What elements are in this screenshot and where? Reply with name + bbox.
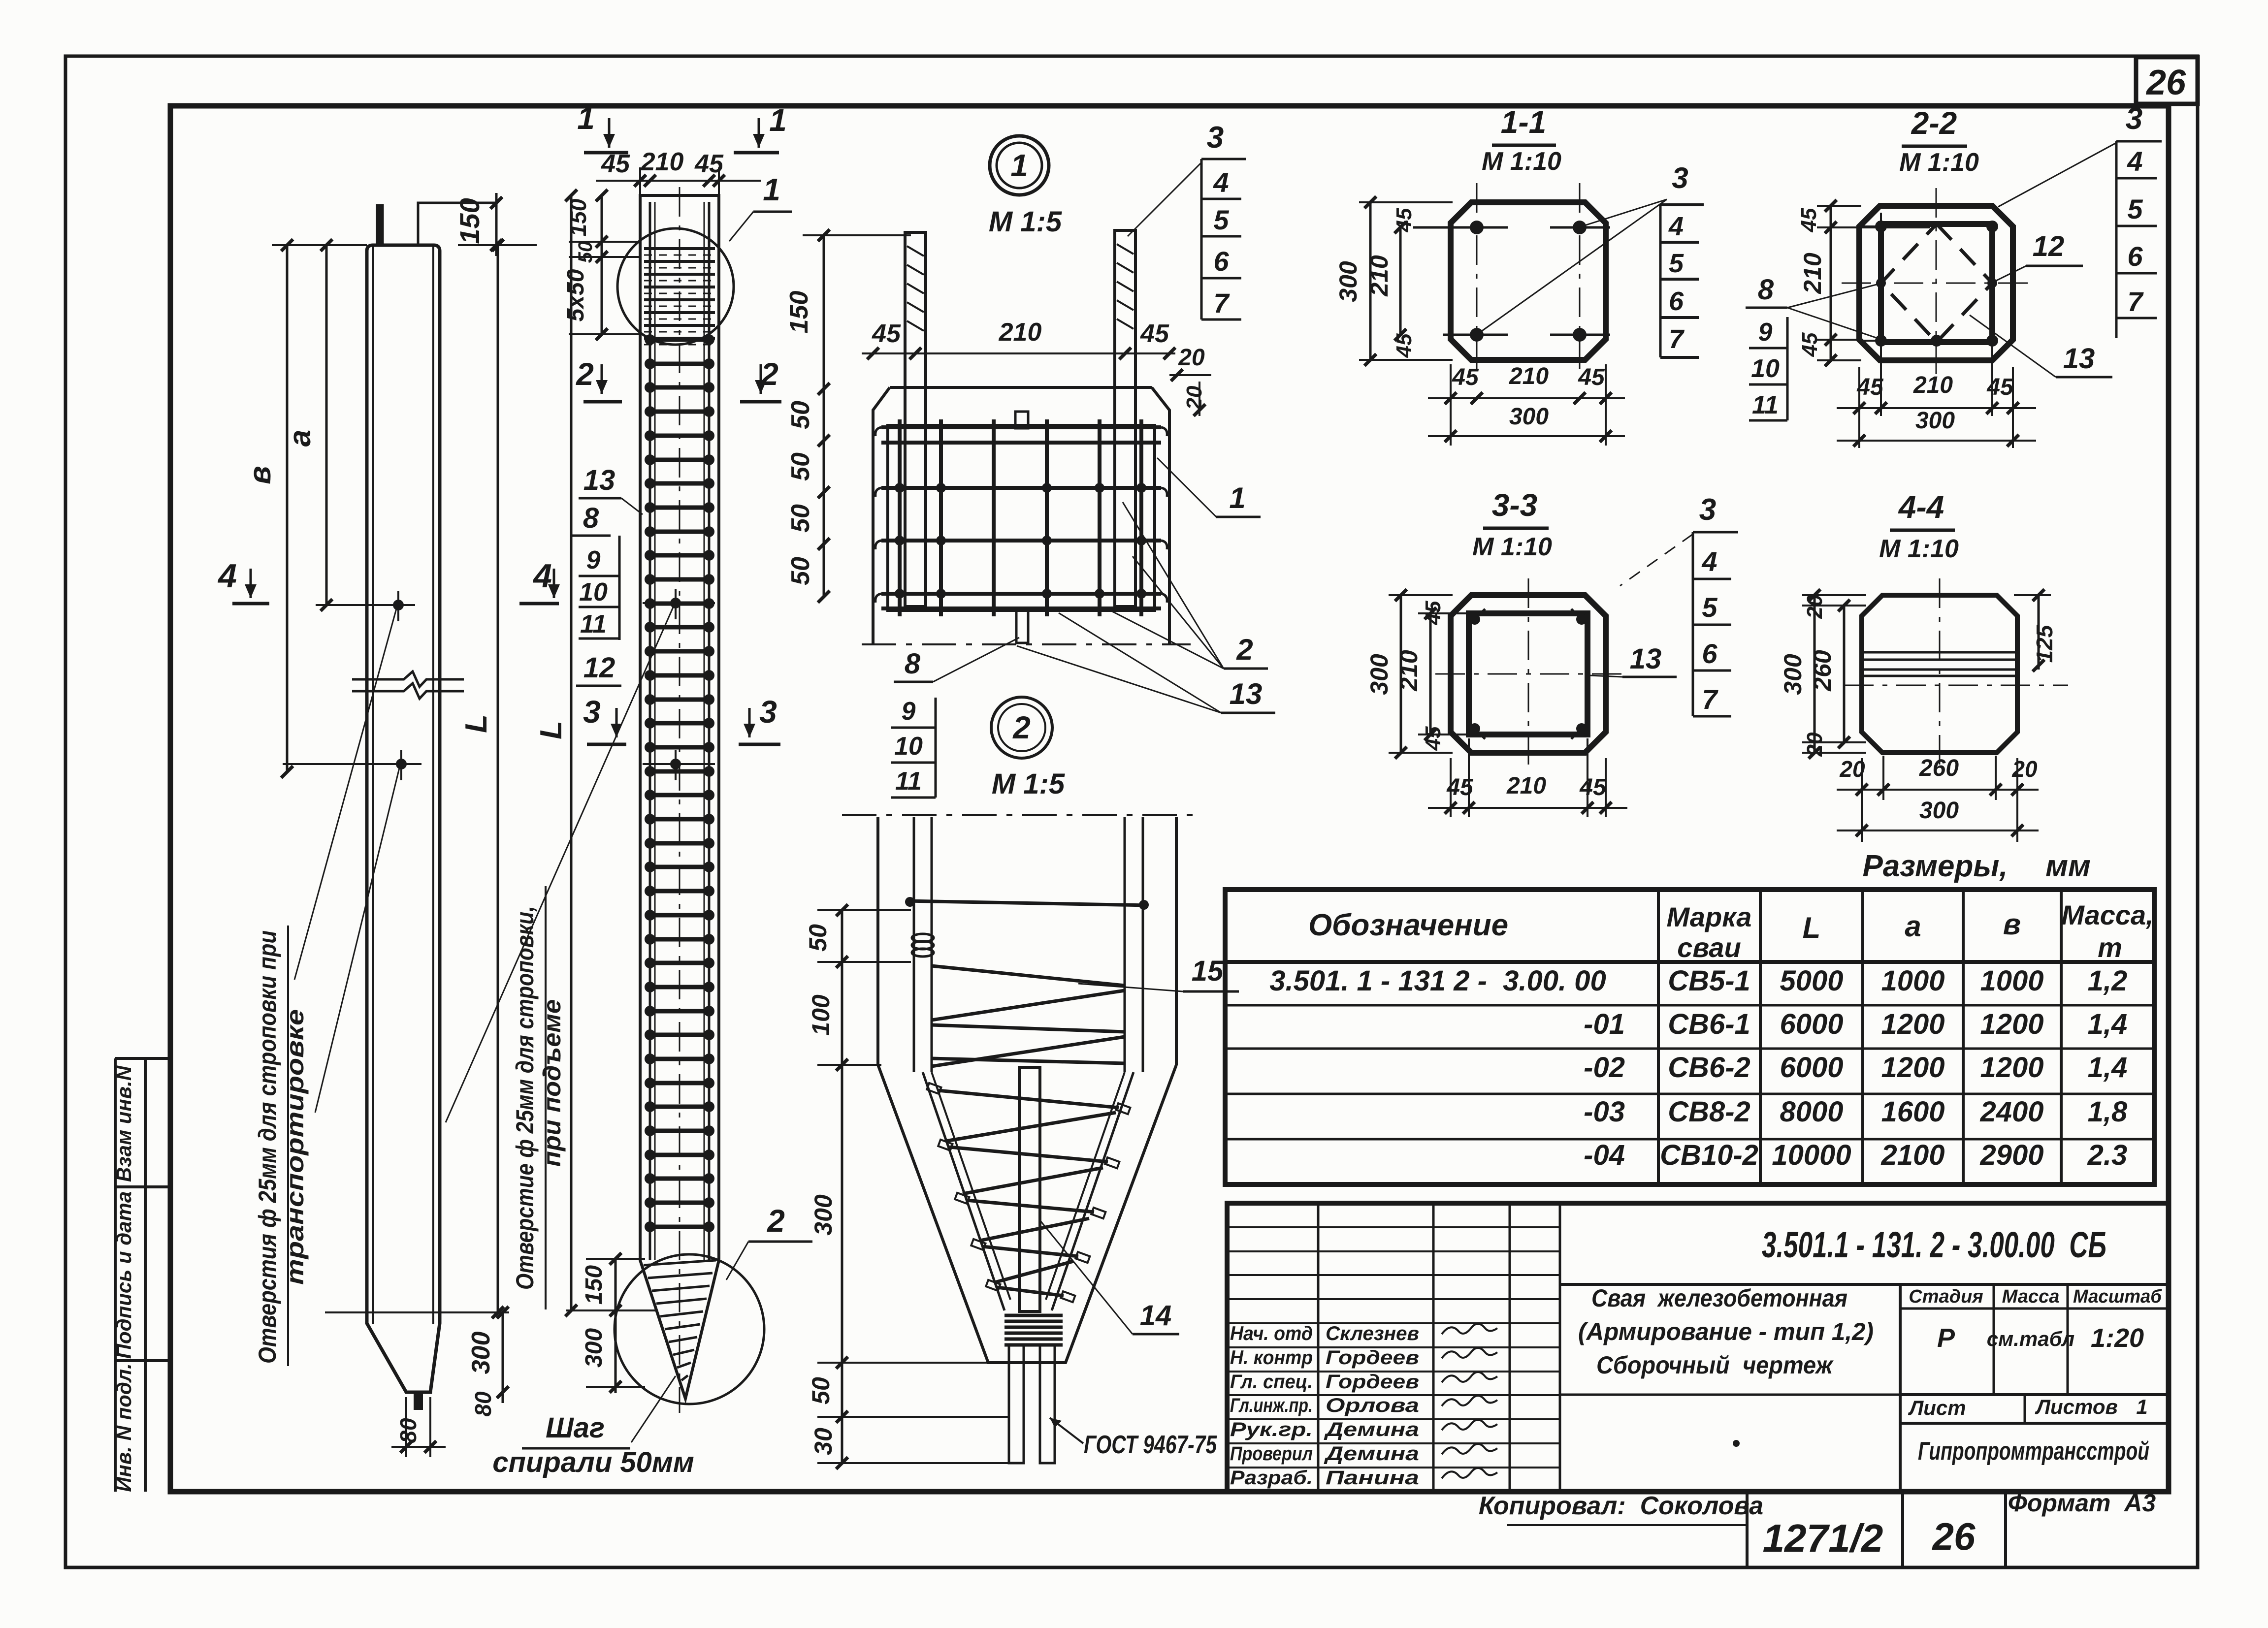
svg-text:Шаг: Шаг [546, 1412, 605, 1444]
svg-text:m: m [2098, 932, 2122, 963]
svg-text:13: 13 [2063, 343, 2095, 375]
svg-text:L: L [1803, 911, 1821, 944]
svg-text:50: 50 [786, 557, 815, 585]
svg-text:300: 300 [1915, 408, 1955, 434]
svg-text:Инв. N подл.: Инв. N подл. [112, 1363, 135, 1492]
svg-text:2100: 2100 [1880, 1139, 1944, 1171]
svg-text:210: 210 [1506, 773, 1546, 799]
svg-text:Стадия: Стадия [1909, 1286, 1983, 1307]
svg-text:45: 45 [1392, 208, 1416, 232]
svg-text:45: 45 [1392, 333, 1416, 358]
svg-text:150: 150 [581, 1265, 607, 1305]
svg-text:1: 1 [2136, 1395, 2147, 1418]
svg-text:а: а [1905, 910, 1921, 943]
svg-text:4-4: 4-4 [1898, 489, 1944, 525]
svg-text:3.501.1 - 131. 2 - 3.00.00 СБ: 3.501.1 - 131. 2 - 3.00.00 СБ [1762, 1224, 2106, 1265]
svg-text:11: 11 [1752, 391, 1779, 419]
svg-text:(Армирование - тип 1,2): (Армирование - тип 1,2) [1578, 1318, 1874, 1345]
svg-text:300: 300 [467, 1332, 495, 1374]
svg-text:45: 45 [1986, 374, 2014, 400]
svg-text:М 1:10: М 1:10 [1899, 148, 1979, 177]
svg-text:300: 300 [1779, 654, 1807, 695]
svg-text:50: 50 [786, 504, 815, 533]
svg-text:в: в [2003, 908, 2021, 941]
svg-text:Взам инв.N: Взам инв.N [112, 1065, 135, 1182]
svg-text:210: 210 [1913, 372, 1953, 398]
svg-text:Демина: Демина [1324, 1419, 1419, 1440]
svg-text:150: 150 [785, 291, 813, 334]
svg-text:300: 300 [581, 1328, 607, 1368]
svg-text:7: 7 [1213, 287, 1230, 319]
svg-text:9: 9 [902, 697, 916, 726]
svg-text:1-1: 1-1 [1501, 104, 1547, 140]
svg-text:М 1:10: М 1:10 [1472, 533, 1552, 561]
svg-text:7: 7 [1669, 324, 1685, 354]
svg-text:1200: 1200 [1980, 1008, 2043, 1040]
svg-text:Формат А3: Формат А3 [2008, 1489, 2156, 1517]
svg-text:125: 125 [2032, 624, 2057, 663]
svg-text:26: 26 [1932, 1515, 1976, 1558]
svg-text:2.3: 2.3 [2087, 1139, 2128, 1171]
svg-text:50: 50 [804, 924, 832, 952]
svg-text:11: 11 [895, 767, 922, 796]
svg-text:а: а [283, 430, 317, 447]
svg-text:10: 10 [1751, 354, 1780, 383]
svg-text:Отверстие ф 25мм для строповки: Отверстие ф 25мм для строповки, [511, 906, 539, 1290]
svg-text:80: 80 [395, 1418, 421, 1443]
svg-text:45: 45 [1421, 726, 1445, 751]
svg-text:20: 20 [1178, 345, 1205, 371]
svg-text:260: 260 [1809, 650, 1836, 692]
svg-text:Обозначение: Обозначение [1308, 908, 1508, 942]
svg-text:-01: -01 [1584, 1008, 1625, 1040]
svg-text:3.501. 1 - 131 2 - 3.00. 00: 3.501. 1 - 131 2 - 3.00. 00 [1269, 965, 1606, 997]
svg-text:-03: -03 [1584, 1096, 1625, 1128]
svg-text:спирали 50мм: спирали 50мм [492, 1446, 694, 1478]
svg-text:6: 6 [2127, 241, 2143, 272]
svg-text:210: 210 [641, 148, 684, 176]
svg-text:1200: 1200 [1980, 1052, 2043, 1084]
svg-text:Листов: Листов [2035, 1395, 2118, 1418]
svg-text:45: 45 [1578, 364, 1605, 390]
svg-text:Отверстия ф 25мм для строповки: Отверстия ф 25мм для строповки при [254, 930, 281, 1364]
svg-text:Склезнев: Склезнев [1326, 1323, 1419, 1344]
svg-text:6: 6 [1702, 638, 1717, 669]
svg-text:Проверил: Проверил [1230, 1443, 1313, 1465]
svg-text:СВ8-2: СВ8-2 [1668, 1096, 1750, 1128]
svg-text:Нач. отд: Нач. отд [1230, 1323, 1313, 1344]
svg-text:2400: 2400 [1979, 1096, 2043, 1128]
svg-text:сваи: сваи [1677, 932, 1741, 963]
svg-text:2-2: 2-2 [1911, 105, 1957, 141]
svg-text:1000: 1000 [1980, 965, 2043, 997]
svg-text:СВ6-2: СВ6-2 [1668, 1052, 1750, 1084]
svg-text:6: 6 [1213, 246, 1229, 277]
svg-text:1000: 1000 [1881, 965, 1944, 997]
svg-text:Гордеев: Гордеев [1326, 1371, 1419, 1393]
svg-text:3: 3 [1207, 121, 1224, 155]
svg-text:150: 150 [454, 198, 485, 244]
svg-text:Подпись и дата: Подпись и дата [112, 1191, 135, 1359]
svg-text:Размеры,: Размеры, [1862, 849, 2008, 883]
svg-text:300: 300 [1919, 798, 1959, 824]
svg-text:3: 3 [759, 694, 777, 730]
svg-text:8000: 8000 [1780, 1096, 1843, 1128]
svg-text:5: 5 [1213, 204, 1229, 235]
svg-text:45: 45 [1797, 208, 1821, 232]
svg-text:1,8: 1,8 [2088, 1096, 2128, 1128]
svg-text:М 1:10: М 1:10 [1879, 535, 1959, 563]
svg-text:300: 300 [1509, 404, 1549, 430]
svg-text:3: 3 [583, 694, 601, 730]
svg-text:45: 45 [694, 150, 724, 178]
svg-text:50: 50 [575, 241, 596, 263]
svg-text:Рук.гр.: Рук.гр. [1230, 1419, 1313, 1440]
svg-text:5: 5 [1702, 592, 1717, 623]
svg-text:Н. контр: Н. контр [1230, 1347, 1313, 1369]
svg-text:210: 210 [999, 318, 1042, 347]
svg-text:-02: -02 [1584, 1052, 1625, 1084]
svg-text:Панина: Панина [1326, 1467, 1419, 1489]
svg-text:210: 210 [1799, 253, 1826, 294]
svg-text:300: 300 [1334, 261, 1362, 302]
svg-text:Сборочный чертеж: Сборочный чертеж [1596, 1351, 1834, 1379]
svg-text:1200: 1200 [1881, 1052, 1944, 1084]
svg-text:13: 13 [1230, 677, 1263, 710]
svg-text:М 1:5: М 1:5 [989, 206, 1062, 238]
svg-text:1,2: 1,2 [2088, 965, 2128, 997]
svg-text:1: 1 [769, 102, 787, 138]
svg-text:4: 4 [532, 557, 552, 595]
svg-text:1271/2: 1271/2 [1763, 1516, 1883, 1560]
svg-text:45: 45 [1452, 364, 1479, 390]
svg-text:5000: 5000 [1780, 965, 1843, 997]
svg-text:М 1:10: М 1:10 [1482, 147, 1561, 176]
svg-text:Свая железобетонная: Свая железобетонная [1591, 1284, 1847, 1312]
svg-text:80: 80 [470, 1391, 496, 1417]
svg-text:8: 8 [905, 648, 921, 680]
svg-text:300: 300 [810, 1194, 837, 1236]
svg-text:1: 1 [1229, 481, 1245, 514]
svg-text:6000: 6000 [1780, 1052, 1843, 1084]
svg-text:45: 45 [1446, 774, 1474, 800]
svg-text:11: 11 [580, 610, 607, 638]
svg-text:Разраб.: Разраб. [1230, 1467, 1313, 1489]
svg-text:Гл.инж.пр.: Гл.инж.пр. [1230, 1395, 1313, 1416]
svg-text:Лист: Лист [1908, 1396, 1966, 1419]
svg-text:50: 50 [786, 452, 815, 481]
svg-text:20: 20 [1803, 594, 1827, 619]
svg-text:Гипропромтрансстрой: Гипропромтрансстрой [1918, 1437, 2149, 1466]
svg-text:1600: 1600 [1881, 1096, 1944, 1128]
svg-text:5x50: 5x50 [563, 269, 589, 321]
svg-text:14: 14 [1140, 1300, 1172, 1332]
svg-text:2: 2 [1236, 633, 1253, 666]
svg-text:50: 50 [786, 401, 815, 429]
svg-text:210: 210 [1365, 255, 1393, 297]
svg-text:1: 1 [577, 100, 595, 136]
svg-text:300: 300 [1365, 654, 1393, 695]
svg-text:4: 4 [2127, 146, 2142, 177]
svg-text:СВ5-1: СВ5-1 [1668, 965, 1750, 997]
svg-text:30: 30 [810, 1428, 837, 1455]
svg-text:5: 5 [2127, 193, 2143, 224]
svg-text:ГОСТ 9467-75: ГОСТ 9467-75 [1084, 1431, 1217, 1459]
svg-text:10: 10 [579, 578, 608, 607]
svg-text:2900: 2900 [1979, 1139, 2043, 1171]
svg-text:20: 20 [1839, 756, 1865, 782]
svg-text:L: L [534, 721, 568, 739]
svg-text:50: 50 [807, 1377, 835, 1405]
svg-text:3-3: 3-3 [1492, 487, 1538, 523]
svg-text:Орлова: Орлова [1326, 1395, 1419, 1416]
svg-text:2: 2 [576, 356, 594, 392]
svg-text:Гл. спец.: Гл. спец. [1230, 1371, 1313, 1393]
svg-text:Масштаб: Масштаб [2073, 1286, 2162, 1307]
svg-text:2: 2 [1012, 710, 1031, 745]
svg-text:12: 12 [2033, 230, 2065, 262]
svg-text:4: 4 [1668, 212, 1684, 241]
svg-text:26: 26 [2145, 63, 2186, 102]
svg-text:СВ6-1: СВ6-1 [1668, 1008, 1750, 1040]
svg-text:СВ10-2: СВ10-2 [1660, 1139, 1758, 1171]
svg-text:150: 150 [565, 198, 591, 236]
svg-text:1:20: 1:20 [2091, 1323, 2144, 1353]
svg-text:210: 210 [1395, 650, 1423, 692]
svg-text:9: 9 [586, 546, 601, 575]
svg-text:7: 7 [2127, 286, 2144, 317]
svg-text:6000: 6000 [1780, 1008, 1843, 1040]
svg-text:9: 9 [1758, 318, 1773, 347]
svg-text:10000: 10000 [1772, 1139, 1851, 1171]
svg-text:4: 4 [1701, 546, 1717, 577]
svg-text:Р: Р [1937, 1323, 1955, 1353]
svg-text:5: 5 [1669, 249, 1684, 278]
svg-text:45: 45 [1856, 374, 1884, 400]
svg-text:1: 1 [1010, 148, 1028, 183]
svg-text:Марка: Марка [1667, 901, 1752, 932]
svg-text:транспортировке: транспортировке [281, 1009, 309, 1285]
svg-text:Масса: Масса [2002, 1286, 2060, 1307]
svg-text:45: 45 [872, 319, 901, 348]
svg-text:4: 4 [217, 557, 237, 595]
svg-text:Масса,: Масса, [2061, 899, 2153, 930]
svg-text:45: 45 [1140, 319, 1169, 348]
svg-text:1200: 1200 [1881, 1008, 1944, 1040]
svg-text:в: в [243, 466, 277, 484]
svg-text:3: 3 [1699, 493, 1716, 527]
svg-text:при подъеме: при подъеме [538, 999, 566, 1167]
svg-text:6: 6 [1669, 287, 1684, 316]
svg-text:260: 260 [1919, 755, 1959, 781]
svg-text:3: 3 [1672, 161, 1688, 194]
svg-text:2: 2 [767, 1203, 785, 1239]
svg-text:1,4: 1,4 [2088, 1008, 2128, 1040]
svg-text:М 1:5: М 1:5 [992, 768, 1065, 800]
svg-text:8: 8 [1758, 274, 1774, 306]
svg-text:Демина: Демина [1324, 1443, 1419, 1465]
svg-text:13: 13 [1630, 643, 1662, 675]
svg-text:1,4: 1,4 [2088, 1052, 2128, 1084]
svg-text:100: 100 [807, 994, 835, 1036]
svg-text:45: 45 [1798, 332, 1822, 357]
svg-text:L: L [459, 714, 493, 733]
svg-text:210: 210 [1509, 363, 1549, 389]
svg-text:15: 15 [1192, 955, 1224, 987]
svg-text:4: 4 [1213, 167, 1229, 198]
svg-text:Копировал: Соколова: Копировал: Соколова [1479, 1492, 1763, 1520]
svg-text:Гордеев: Гордеев [1326, 1347, 1419, 1369]
svg-text:3: 3 [2126, 102, 2142, 136]
svg-text:-04: -04 [1584, 1139, 1625, 1171]
svg-text:8: 8 [583, 502, 599, 534]
svg-text:7: 7 [1702, 684, 1718, 715]
svg-text:45: 45 [1579, 774, 1607, 800]
svg-text:13: 13 [583, 464, 616, 496]
svg-text:10: 10 [894, 732, 923, 761]
svg-text:мм: мм [2045, 849, 2091, 883]
svg-text:20: 20 [2011, 756, 2038, 782]
svg-text:см.табл: см.табл [1987, 1327, 2074, 1350]
svg-text:12: 12 [583, 652, 616, 684]
svg-text:1: 1 [763, 172, 780, 207]
